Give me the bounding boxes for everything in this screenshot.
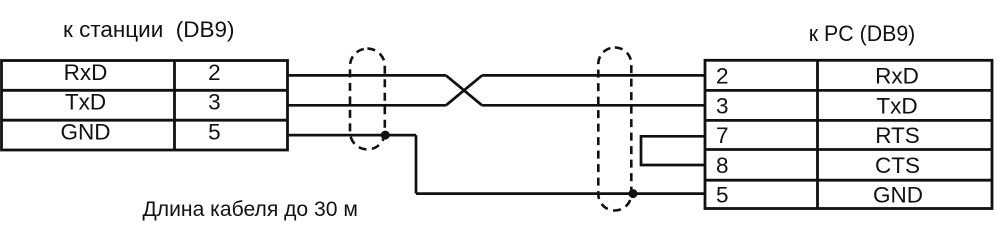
svg-text:GND: GND [61,120,111,145]
wire crossover diagonal down (J1 pin2 to J2 pin3) [446,75,482,105]
wire jumper J2 RTS to CTS [641,136,705,165]
wire J1.TxD to crossover (y=105) [288,104,446,107]
svg-text:2: 2 [208,60,221,85]
connector J2 row divider 3 [705,148,992,151]
connector J1 column divider [173,61,176,151]
svg-text:CTS: CTS [875,153,920,178]
connector J2 row divider 4 [705,179,992,182]
svg-text:TxD: TxD [876,94,917,119]
svg-text:3: 3 [716,94,729,119]
wire crossover to J2.TxD (y=105) [482,104,705,107]
svg-text:TxD: TxD [65,89,106,114]
cable shield symbol (dashed capsule, PC end) [598,48,631,211]
svg-text:к PC (DB9): к PC (DB9) [809,21,916,46]
cable shield symbol (dashed capsule, station end) [350,49,385,150]
svg-text:2: 2 [716,64,729,89]
connector J1 row divider 1 [2,89,288,92]
svg-text:5: 5 [208,120,221,145]
wire J1.RxD to crossover (y=75) [288,74,446,77]
connector J2 (PC DB9) table outline [705,60,992,208]
svg-text:7: 7 [716,123,729,148]
svg-text:3: 3 [208,89,221,114]
wire crossover to J2.RxD (y=75) [482,74,705,77]
svg-text:8: 8 [716,153,729,178]
svg-text:RxD: RxD [64,60,108,85]
svg-text:5: 5 [716,183,729,208]
connector J1 row divider 2 [2,119,288,122]
connector J2 column divider [816,60,819,208]
connector J2 row divider 2 [705,119,992,122]
svg-text:Длина кабеля до 30 м: Длина кабеля до 30 м [143,198,358,221]
wire J1.GND horizontal (y=135) [288,134,416,137]
wire crossover diagonal up (J1 pin3 to J2 pin2) [446,75,482,105]
svg-text:RTS: RTS [875,123,920,148]
junction dot: shield to GND wire (station end) [381,131,390,140]
connector J2 row divider 1 [705,89,992,92]
svg-text:GND: GND [873,183,923,208]
svg-text:к станции (DB9): к станции (DB9) [63,17,235,42]
wire GND bottom run to J2 pin5 (y=193.5) [416,192,705,195]
connector J1 (station DB9) table outline [2,61,288,151]
junction dot: shield to GND wire (PC end) [629,189,638,198]
wire GND vertical drop (x=416) [415,135,418,194]
svg-text:RxD: RxD [875,64,919,89]
